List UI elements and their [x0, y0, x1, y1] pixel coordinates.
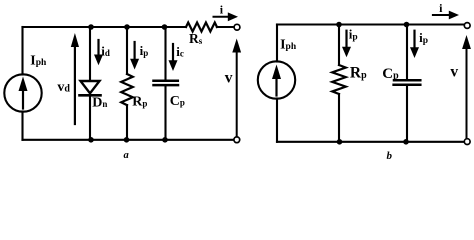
node dot b bottom Rp — [337, 139, 343, 145]
svg-text:Rp: Rp — [350, 65, 367, 82]
wire b top rail — [277, 23, 464, 25]
arrow v (a) — [236, 51, 238, 137]
node dot a top Cp — [162, 24, 168, 30]
node dot a bottom Rp — [124, 137, 130, 143]
current source I_ph (b) — [258, 61, 295, 98]
resistor R_p (b) zigzag — [332, 65, 346, 94]
terminal b top — [464, 23, 470, 29]
wire R_s to terminal — [217, 26, 234, 28]
capacitor C_p (a) wire upper — [164, 27, 166, 80]
terminal b bottom — [464, 139, 470, 145]
svg-text:ip: ip — [140, 43, 149, 58]
arrow i_p (b right) — [413, 31, 415, 47]
wire b bottom rail — [277, 141, 464, 143]
terminal a bottom — [234, 137, 240, 143]
svg-text:Rs: Rs — [189, 31, 203, 46]
capacitor C_p (b) wire upper — [406, 25, 408, 80]
wire a bottom rail — [23, 139, 235, 141]
node dot a bottom diode — [88, 137, 94, 143]
svg-text:Iph: Iph — [30, 54, 47, 69]
wire a left upper — [21, 27, 23, 75]
diode D_n branch wire upper — [89, 27, 91, 80]
svg-text:a: a — [124, 150, 129, 161]
capacitor C_p (a) bottom plate — [154, 84, 179, 87]
svg-text:Rp: Rp — [132, 95, 147, 110]
resistor R_p (a) wire upper — [126, 27, 128, 74]
node dot a bottom Cp — [162, 137, 168, 143]
wire b left upper — [276, 25, 278, 62]
svg-text:v: v — [225, 70, 233, 87]
resistor R_p (b) wire lower — [338, 94, 340, 142]
arrow i_d — [97, 40, 99, 55]
capacitor C_p (a) wire lower — [164, 86, 166, 140]
arrow v_d — [74, 46, 76, 125]
node dot b top Cp — [404, 22, 410, 28]
diode branch wire lower — [89, 95, 91, 140]
terminal a top — [234, 24, 240, 30]
capacitor C_p (b) top plate — [394, 79, 420, 82]
diode D_n cathode bar — [80, 94, 101, 97]
node dot b top Rp — [336, 22, 342, 28]
wire b left lower — [276, 99, 278, 142]
wire a top rail — [23, 26, 187, 28]
arrow i_p (b left) — [345, 31, 347, 47]
svg-text:b: b — [387, 150, 393, 162]
svg-text:id: id — [101, 44, 110, 59]
wire a left lower — [21, 112, 23, 140]
arrow i (b) — [433, 14, 449, 16]
svg-text:Cp: Cp — [382, 66, 399, 82]
arrow i_c — [172, 44, 174, 60]
arrow i_p (a) — [134, 42, 136, 59]
resistor R_p (b) wire upper — [338, 25, 340, 66]
resistor R_p (a) zigzag — [121, 74, 133, 105]
current source I_ph (a) — [4, 74, 41, 111]
svg-text:Dn: Dn — [92, 96, 107, 111]
capacitor C_p (b) bottom plate — [394, 83, 421, 86]
svg-text:vd: vd — [57, 80, 70, 95]
svg-text:Iph: Iph — [280, 38, 297, 53]
svg-text:v: v — [450, 64, 458, 81]
arrow i (a) — [214, 16, 229, 18]
svg-text:ip: ip — [349, 27, 358, 43]
node dot a top diode — [88, 24, 94, 30]
node dot b bottom Cp — [403, 139, 409, 145]
resistor R_s zigzag — [186, 23, 217, 32]
capacitor C_p (b) wire lower — [406, 86, 408, 142]
diode D_n triangle — [81, 81, 100, 93]
node dot a top Rp — [124, 24, 130, 30]
svg-text:Cp: Cp — [170, 94, 185, 109]
svg-text:ip: ip — [419, 30, 428, 46]
svg-text:i: i — [220, 3, 224, 17]
resistor R_p (a) wire lower — [126, 105, 128, 140]
arrow v (b) — [466, 48, 468, 139]
capacitor C_p (a) top plate — [154, 79, 178, 82]
svg-text:ic: ic — [176, 44, 184, 59]
svg-text:i: i — [439, 1, 443, 15]
